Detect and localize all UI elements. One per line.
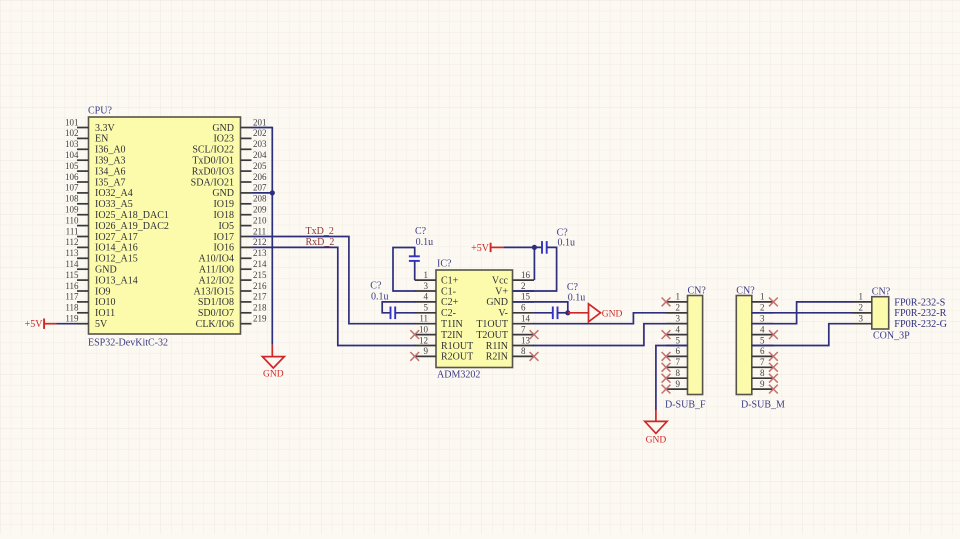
svg-text:5V: 5V bbox=[95, 319, 108, 330]
wire CPU pin 207 GND to vertical bbox=[252, 192, 273, 194]
label D-SUB_M part name bbox=[741, 400, 785, 411]
net label RxD_2 bbox=[306, 237, 335, 248]
CPU pin 104 (I39_A3) bbox=[65, 150, 126, 167]
svg-text:T1OUT: T1OUT bbox=[476, 319, 508, 330]
ADM3202 pin 13 (R1IN) bbox=[486, 335, 534, 352]
ADM3202 pin 2 (V+) bbox=[495, 281, 534, 298]
no-connect X on D-SUB_M pin 4 bbox=[769, 330, 778, 339]
svg-text:5: 5 bbox=[676, 335, 681, 345]
svg-text:8: 8 bbox=[676, 368, 681, 378]
svg-text:217: 217 bbox=[253, 292, 267, 302]
ADM3202 pin 8 (R2IN) bbox=[486, 346, 534, 363]
svg-text:0.1u: 0.1u bbox=[371, 292, 389, 303]
svg-text:I36_A0: I36_A0 bbox=[95, 145, 126, 156]
svg-text:SDA/IO21: SDA/IO21 bbox=[191, 177, 234, 188]
ground symbol under CPU bbox=[262, 357, 284, 380]
svg-text:TxD0/IO1: TxD0/IO1 bbox=[192, 156, 234, 167]
svg-text:IO32_A4: IO32_A4 bbox=[95, 188, 133, 199]
svg-text:T1IN: T1IN bbox=[441, 319, 463, 330]
svg-text:IO14_A16: IO14_A16 bbox=[95, 243, 138, 254]
D-SUB_F pin 3 bbox=[666, 314, 688, 324]
D-SUB_M pin 7 bbox=[752, 357, 774, 367]
svg-text:108: 108 bbox=[65, 194, 79, 204]
no-connect X on D-SUB_F pin 9 bbox=[662, 385, 671, 394]
CPU pin 204 (TxD0/IO1) bbox=[192, 150, 267, 167]
svg-text:CN?: CN? bbox=[688, 286, 707, 297]
svg-text:111: 111 bbox=[66, 226, 79, 236]
svg-text:110: 110 bbox=[65, 215, 79, 225]
D-SUB_F pin 4 bbox=[666, 324, 688, 334]
svg-text:IO12_A15: IO12_A15 bbox=[95, 254, 138, 265]
svg-text:1: 1 bbox=[676, 292, 681, 302]
wire +5V to CPU pin 119 bbox=[57, 323, 78, 325]
svg-text:T2OUT: T2OUT bbox=[476, 330, 508, 341]
svg-text:103: 103 bbox=[65, 139, 79, 149]
svg-text:SCL/IO22: SCL/IO22 bbox=[192, 145, 234, 156]
svg-text:0.1u: 0.1u bbox=[558, 238, 576, 249]
ADM3202 pin 10 (T2IN) bbox=[415, 324, 463, 341]
svg-text:IO17: IO17 bbox=[213, 232, 234, 243]
svg-text:203: 203 bbox=[253, 139, 267, 149]
CPU pin 202 (IO23) bbox=[213, 128, 266, 145]
wire D-SUB_M pin 3 to CON_3P pin 1 bbox=[752, 302, 853, 324]
label IC? designator bbox=[437, 259, 452, 270]
CON_3P pin 1 bbox=[852, 292, 872, 302]
no-connect X on ADM pin 9 R2OUT bbox=[410, 352, 419, 361]
svg-text:10: 10 bbox=[419, 324, 429, 334]
svg-text:105: 105 bbox=[65, 161, 79, 171]
svg-text:GND: GND bbox=[212, 188, 234, 199]
wire D-SUB_F pin 5 to ground bbox=[656, 346, 688, 421]
svg-text:D-SUB_F: D-SUB_F bbox=[665, 400, 706, 411]
svg-text:R1OUT: R1OUT bbox=[441, 341, 473, 352]
svg-text:0.1u: 0.1u bbox=[416, 237, 434, 248]
svg-text:114: 114 bbox=[65, 259, 79, 269]
CPU pin 111 (IO27_A17) bbox=[66, 226, 138, 243]
junction Vcc branch bbox=[532, 245, 537, 250]
svg-text:RxD0/IO3: RxD0/IO3 bbox=[192, 166, 234, 177]
CPU pin 106 (I35_A7) bbox=[65, 172, 126, 189]
wire T1OUT to D-SUB_F pin 2 bbox=[533, 313, 688, 324]
svg-text:GND: GND bbox=[263, 370, 284, 380]
svg-text:A12/IO2: A12/IO2 bbox=[198, 275, 234, 286]
CPU pin 218 (SD0/IO7) bbox=[198, 303, 267, 320]
wire R1IN to D-SUB_F pin 3 bbox=[533, 324, 688, 346]
ADM3202 pin 12 (R1OUT) bbox=[415, 335, 474, 352]
svg-text:109: 109 bbox=[65, 205, 79, 215]
CPU pin 219 (CLK/IO6) bbox=[196, 314, 267, 331]
svg-text:9: 9 bbox=[676, 379, 681, 389]
CPU pin 207 (GND) bbox=[212, 183, 267, 200]
svg-text:Vcc: Vcc bbox=[492, 275, 509, 286]
svg-text:118: 118 bbox=[65, 303, 79, 313]
svg-text:IO13_A14: IO13_A14 bbox=[95, 275, 138, 286]
svg-text:IO19: IO19 bbox=[213, 199, 234, 210]
CPU pin 209 (IO18) bbox=[213, 205, 267, 222]
svg-text:ADM3202: ADM3202 bbox=[437, 370, 480, 381]
wire GND pin to junction bbox=[513, 302, 568, 313]
svg-text:1: 1 bbox=[424, 270, 429, 280]
svg-text:119: 119 bbox=[65, 314, 79, 324]
D-SUB_F pin 7 bbox=[666, 357, 688, 367]
wire C3 to V+ pin bbox=[513, 247, 557, 291]
svg-text:ESP32-DevKitC-32: ESP32-DevKitC-32 bbox=[88, 338, 168, 349]
CPU pin 205 (RxD0/IO3) bbox=[192, 161, 267, 178]
svg-text:201: 201 bbox=[253, 117, 267, 127]
svg-text:R2IN: R2IN bbox=[486, 352, 508, 363]
svg-text:116: 116 bbox=[65, 281, 79, 291]
D-SUB_M pin 6 bbox=[752, 346, 774, 356]
label CN? designator (D-SUB_F) bbox=[688, 286, 707, 297]
svg-text:IO16: IO16 bbox=[213, 243, 234, 254]
svg-text:205: 205 bbox=[253, 161, 267, 171]
D-SUB_M pin 2 bbox=[752, 303, 774, 313]
svg-text:I39_A3: I39_A3 bbox=[95, 156, 126, 167]
svg-text:C1+: C1+ bbox=[441, 275, 459, 286]
CPU pin 114 (GND) bbox=[65, 259, 116, 276]
svg-text:1: 1 bbox=[760, 292, 765, 302]
svg-text:SD1/IO8: SD1/IO8 bbox=[198, 297, 234, 308]
CPU pin 118 (IO11) bbox=[65, 303, 115, 320]
svg-text:D-SUB_M: D-SUB_M bbox=[741, 400, 785, 411]
wire D-SUB_M pin 5 to CON_3P pin 3 bbox=[752, 324, 853, 346]
svg-text:2: 2 bbox=[521, 281, 526, 291]
svg-text:CPU?: CPU? bbox=[88, 106, 112, 117]
CPU pin 217 (SD1/IO8) bbox=[198, 292, 267, 309]
svg-text:CN?: CN? bbox=[736, 286, 755, 297]
wire C2 to ADM pin5 bbox=[395, 312, 415, 314]
CPU pin 109 (IO25_A18_DAC1) bbox=[65, 205, 169, 222]
wire TxD_2 from CPU pin 211 to ADM T1IN bbox=[252, 237, 416, 324]
CPU pin 214 (A11/IO0) bbox=[199, 259, 267, 276]
svg-text:6: 6 bbox=[521, 303, 526, 313]
wire D-SUB_M pin 2 to CON_3P pin 2 bbox=[752, 312, 872, 314]
svg-text:FP0R-232-S: FP0R-232-S bbox=[894, 297, 945, 308]
svg-text:7: 7 bbox=[676, 357, 681, 367]
capacitor C4 plates bbox=[553, 307, 558, 320]
svg-text:IO23: IO23 bbox=[213, 134, 234, 145]
svg-text:GND: GND bbox=[212, 123, 234, 134]
CPU pin 102 (EN) bbox=[65, 128, 108, 145]
svg-text:9: 9 bbox=[424, 346, 429, 356]
CPU pin 116 (IO9) bbox=[65, 281, 110, 298]
ADM3202 pin 9 (R2OUT) bbox=[415, 346, 474, 363]
CPU pin 208 (IO19) bbox=[213, 194, 267, 211]
power flag +5V (left, CPU 5V pin) bbox=[25, 319, 57, 331]
svg-text:IO5: IO5 bbox=[218, 221, 234, 232]
CPU pin 119 (5V) bbox=[65, 314, 108, 331]
label CN? designator (D-SUB_M) bbox=[736, 286, 755, 297]
svg-text:212: 212 bbox=[253, 237, 267, 247]
svg-text:GND: GND bbox=[646, 436, 667, 446]
svg-text:GND: GND bbox=[95, 265, 117, 276]
IC CPU? ESP32-DevKitC-32 body bbox=[89, 117, 241, 334]
svg-text:101: 101 bbox=[65, 117, 79, 127]
svg-text:C?: C? bbox=[415, 226, 427, 237]
svg-text:3.3V: 3.3V bbox=[95, 123, 116, 134]
svg-text:IO27_A17: IO27_A17 bbox=[95, 232, 138, 243]
svg-text:117: 117 bbox=[65, 292, 79, 302]
svg-text:CN?: CN? bbox=[872, 287, 891, 298]
svg-text:204: 204 bbox=[253, 150, 267, 160]
svg-text:7: 7 bbox=[760, 357, 765, 367]
svg-text:15: 15 bbox=[521, 292, 531, 302]
no-connect X on D-SUB_F pin 8 bbox=[662, 374, 671, 383]
svg-text:V+: V+ bbox=[495, 286, 508, 297]
svg-text:CLK/IO6: CLK/IO6 bbox=[196, 319, 234, 330]
svg-text:C?: C? bbox=[567, 282, 579, 293]
CPU pin 112 (IO14_A16) bbox=[65, 237, 137, 254]
svg-text:112: 112 bbox=[65, 237, 78, 247]
ADM3202 pin 1 (C1+) bbox=[415, 270, 459, 287]
svg-text:IO33_A5: IO33_A5 bbox=[95, 199, 133, 210]
svg-text:A10/IO4: A10/IO4 bbox=[198, 254, 234, 265]
svg-text:1: 1 bbox=[859, 292, 864, 302]
svg-text:8: 8 bbox=[521, 346, 526, 356]
CPU pin 211 (IO17) bbox=[213, 226, 266, 243]
CPU pin 215 (A12/IO2) bbox=[198, 270, 267, 287]
ADM3202 pin 6 (V-) bbox=[498, 303, 534, 320]
CPU pin 213 (A10/IO4) bbox=[198, 248, 267, 265]
svg-text:3: 3 bbox=[676, 314, 681, 324]
D-SUB_F pin 8 bbox=[666, 368, 688, 378]
svg-text:4: 4 bbox=[760, 324, 765, 334]
no-connect X on D-SUB_F pin 1 bbox=[662, 298, 671, 307]
svg-text:IO18: IO18 bbox=[213, 210, 234, 221]
CPU pin 105 (I34_A6) bbox=[65, 161, 126, 178]
svg-text:+5V: +5V bbox=[471, 243, 490, 254]
connector CN? : D-SUB_M body bbox=[736, 296, 752, 395]
svg-text:4: 4 bbox=[676, 324, 681, 334]
capacitor C2 plates bbox=[391, 307, 396, 320]
svg-text:IO25_A18_DAC1: IO25_A18_DAC1 bbox=[95, 210, 169, 221]
net label TxD_2 bbox=[306, 226, 334, 237]
svg-text:218: 218 bbox=[253, 303, 267, 313]
CPU pin 115 (IO13_A14) bbox=[65, 270, 137, 287]
svg-text:107: 107 bbox=[65, 183, 79, 193]
svg-text:CON_3P: CON_3P bbox=[873, 331, 910, 342]
svg-text:8: 8 bbox=[760, 368, 765, 378]
svg-text:219: 219 bbox=[253, 314, 267, 324]
svg-text:11: 11 bbox=[419, 314, 428, 324]
D-SUB_M pin 8 bbox=[752, 368, 774, 378]
power flag +5V (at ADM Vcc) bbox=[471, 243, 503, 254]
svg-text:RxD_2: RxD_2 bbox=[306, 237, 335, 248]
svg-text:C2+: C2+ bbox=[441, 297, 459, 308]
connector CN? : CON_3P body bbox=[872, 297, 889, 329]
svg-text:EN: EN bbox=[95, 134, 108, 145]
svg-text:6: 6 bbox=[760, 346, 765, 356]
label CN? designator (CON_3P) bbox=[872, 287, 891, 298]
IC IC? ADM3202 body bbox=[436, 270, 513, 368]
svg-text:C1-: C1- bbox=[441, 286, 456, 297]
svg-text:9: 9 bbox=[760, 379, 765, 389]
no-connect X on D-SUB_F pin 6 bbox=[662, 352, 671, 361]
connector CN? : D-SUB_F body bbox=[688, 296, 703, 395]
svg-text:5: 5 bbox=[424, 303, 429, 313]
svg-text:2: 2 bbox=[859, 303, 864, 313]
label D-SUB_F part name bbox=[665, 400, 706, 411]
ground net flag right of ADM bbox=[568, 304, 623, 322]
svg-text:3: 3 bbox=[859, 314, 864, 324]
CPU pin 212 (IO16) bbox=[213, 237, 266, 254]
label ESP32-DevKitC-32 part name bbox=[88, 338, 168, 349]
svg-text:IO10: IO10 bbox=[95, 297, 116, 308]
ADM3202 pin 5 (C2-) bbox=[415, 303, 456, 320]
D-SUB_M pin 1 bbox=[752, 292, 774, 302]
ADM3202 pin 3 (C1-) bbox=[415, 281, 456, 298]
ADM3202 pin 15 (GND) bbox=[486, 292, 534, 309]
svg-text:104: 104 bbox=[65, 150, 79, 160]
CPU pin 210 (IO5) bbox=[218, 215, 267, 232]
D-SUB_M pin 5 bbox=[752, 335, 774, 345]
svg-text:207: 207 bbox=[253, 183, 267, 193]
capacitor C3 plates bbox=[542, 241, 547, 254]
svg-text:214: 214 bbox=[253, 259, 267, 269]
svg-text:R2OUT: R2OUT bbox=[441, 352, 473, 363]
svg-text:I35_A7: I35_A7 bbox=[95, 177, 126, 188]
svg-text:102: 102 bbox=[65, 128, 79, 138]
D-SUB_M pin 4 bbox=[752, 324, 774, 334]
ground symbol under D-SUB_F bbox=[645, 421, 667, 445]
svg-text:216: 216 bbox=[253, 281, 267, 291]
svg-text:R1IN: R1IN bbox=[486, 341, 508, 352]
CPU pin 101 (3.3V) bbox=[65, 117, 116, 134]
no-connect X on D-SUB_F pin 4 bbox=[662, 330, 671, 339]
svg-text:210: 210 bbox=[253, 215, 267, 225]
D-SUB_M pin 3 bbox=[752, 314, 774, 324]
wire C4 to GND junction bbox=[558, 312, 568, 314]
label 0.1u (C1 value) bbox=[416, 237, 434, 248]
svg-text:TxD_2: TxD_2 bbox=[306, 226, 334, 237]
svg-text:202: 202 bbox=[253, 128, 267, 138]
D-SUB_F pin 2 bbox=[666, 303, 688, 313]
CON_3P pin 2 bbox=[852, 303, 872, 313]
svg-text:2: 2 bbox=[760, 303, 765, 313]
wire GND vertical under pin 201 bbox=[271, 127, 273, 356]
svg-text:V-: V- bbox=[498, 308, 508, 319]
svg-text:A11/IO0: A11/IO0 bbox=[199, 265, 234, 276]
svg-text:C?: C? bbox=[370, 281, 382, 292]
no-connect X on D-SUB_M pin 6 bbox=[769, 352, 778, 361]
svg-text:5: 5 bbox=[760, 335, 765, 345]
svg-text:3: 3 bbox=[424, 281, 429, 291]
svg-text:7: 7 bbox=[521, 324, 526, 334]
svg-text:3: 3 bbox=[760, 314, 765, 324]
svg-text:I34_A6: I34_A6 bbox=[95, 166, 126, 177]
wire C1 top over to ADM pin3 bbox=[393, 248, 416, 292]
CPU pin 201 (GND) bbox=[212, 117, 266, 134]
svg-text:113: 113 bbox=[65, 248, 79, 258]
CPU pin 110 (IO26_A19_DAC2) bbox=[65, 215, 169, 232]
label 0.1u (C4 value) bbox=[568, 293, 586, 304]
svg-text:IO9: IO9 bbox=[95, 286, 111, 297]
no-connect X on D-SUB_M pin 9 bbox=[769, 385, 778, 394]
wire ADM pin4 over to C2 bbox=[382, 302, 415, 313]
net label FP0R-232-R bbox=[894, 308, 946, 319]
svg-text:12: 12 bbox=[419, 335, 428, 345]
svg-text:IC?: IC? bbox=[437, 259, 452, 270]
svg-text:16: 16 bbox=[521, 270, 531, 280]
wire V- pin to C4 bbox=[534, 312, 553, 314]
CPU pin 203 (SCL/IO22) bbox=[192, 139, 267, 156]
wire RxD_2 from CPU pin 212 to ADM R1OUT bbox=[252, 247, 416, 345]
net label FP0R-232-S bbox=[894, 297, 945, 308]
label C? (C2) bbox=[370, 281, 382, 292]
svg-text:115: 115 bbox=[65, 270, 79, 280]
CPU pin 117 (IO10) bbox=[65, 292, 115, 309]
svg-text:IO11: IO11 bbox=[95, 308, 115, 319]
CPU pin 216 (A13/IO15) bbox=[193, 281, 267, 298]
svg-text:213: 213 bbox=[253, 248, 267, 258]
no-connect X on D-SUB_F pin 7 bbox=[662, 363, 671, 372]
svg-text:215: 215 bbox=[253, 270, 267, 280]
wire Vcc vertical drop bbox=[533, 247, 535, 280]
svg-text:GND: GND bbox=[486, 297, 508, 308]
label C? (C1) bbox=[415, 226, 427, 237]
junction CPU GND net at pin 207 bbox=[270, 190, 275, 195]
D-SUB_F pin 6 bbox=[666, 346, 688, 356]
label C? (C4) bbox=[567, 282, 579, 293]
CPU pin 113 (IO12_A15) bbox=[65, 248, 137, 265]
svg-text:4: 4 bbox=[424, 292, 429, 302]
no-connect X on D-SUB_M pin 8 bbox=[769, 374, 778, 383]
label C? (C3) bbox=[557, 228, 569, 239]
svg-text:14: 14 bbox=[521, 314, 531, 324]
CPU pin 103 (I36_A0) bbox=[65, 139, 126, 156]
svg-text:6: 6 bbox=[676, 346, 681, 356]
svg-text:2: 2 bbox=[676, 303, 681, 313]
svg-text:206: 206 bbox=[253, 172, 267, 182]
CON_3P pin 3 bbox=[852, 314, 872, 324]
D-SUB_F pin 9 bbox=[666, 379, 688, 389]
CPU pin 107 (IO32_A4) bbox=[65, 183, 133, 200]
D-SUB_F pin 1 bbox=[666, 292, 688, 302]
label CPU? designator bbox=[88, 106, 112, 117]
D-SUB_M pin 9 bbox=[752, 379, 774, 389]
svg-text:FP0R-232-R: FP0R-232-R bbox=[894, 308, 946, 319]
label 0.1u (C2 value) bbox=[371, 292, 389, 303]
wire ADM pin1 up to C1 bbox=[414, 261, 416, 280]
svg-text:IO26_A19_DAC2: IO26_A19_DAC2 bbox=[95, 221, 169, 232]
svg-text:A13/IO15: A13/IO15 bbox=[193, 286, 234, 297]
svg-text:211: 211 bbox=[253, 226, 266, 236]
junction GND/V- net bbox=[565, 310, 570, 315]
CPU pin 206 (SDA/IO21) bbox=[191, 172, 267, 189]
no-connect X on D-SUB_M pin 7 bbox=[769, 363, 778, 372]
svg-text:13: 13 bbox=[521, 335, 531, 345]
net label FP0R-232-G bbox=[894, 319, 947, 330]
svg-text:0.1u: 0.1u bbox=[568, 293, 586, 304]
D-SUB_F pin 5 bbox=[666, 335, 688, 345]
label 0.1u (C3 value) bbox=[558, 238, 576, 249]
ADM3202 pin 4 (C2+) bbox=[415, 292, 459, 309]
svg-text:T2IN: T2IN bbox=[441, 330, 463, 341]
ADM3202 pin 16 (Vcc) bbox=[492, 270, 534, 287]
svg-text:+5V: +5V bbox=[25, 319, 44, 330]
no-connect X on ADM pin 10 T2IN bbox=[410, 330, 419, 339]
svg-text:106: 106 bbox=[65, 172, 79, 182]
CPU pin 108 (IO33_A5) bbox=[65, 194, 133, 211]
wire +5V to C3 left plate bbox=[503, 246, 542, 248]
svg-text:209: 209 bbox=[253, 205, 267, 215]
svg-text:SD0/IO7: SD0/IO7 bbox=[198, 308, 234, 319]
label ADM3202 part name bbox=[437, 370, 480, 381]
ADM3202 pin 7 (T2OUT) bbox=[476, 324, 534, 341]
ADM3202 pin 11 (T1IN) bbox=[415, 314, 463, 331]
no-connect X on D-SUB_M pin 1 bbox=[769, 298, 778, 307]
svg-text:208: 208 bbox=[253, 194, 267, 204]
